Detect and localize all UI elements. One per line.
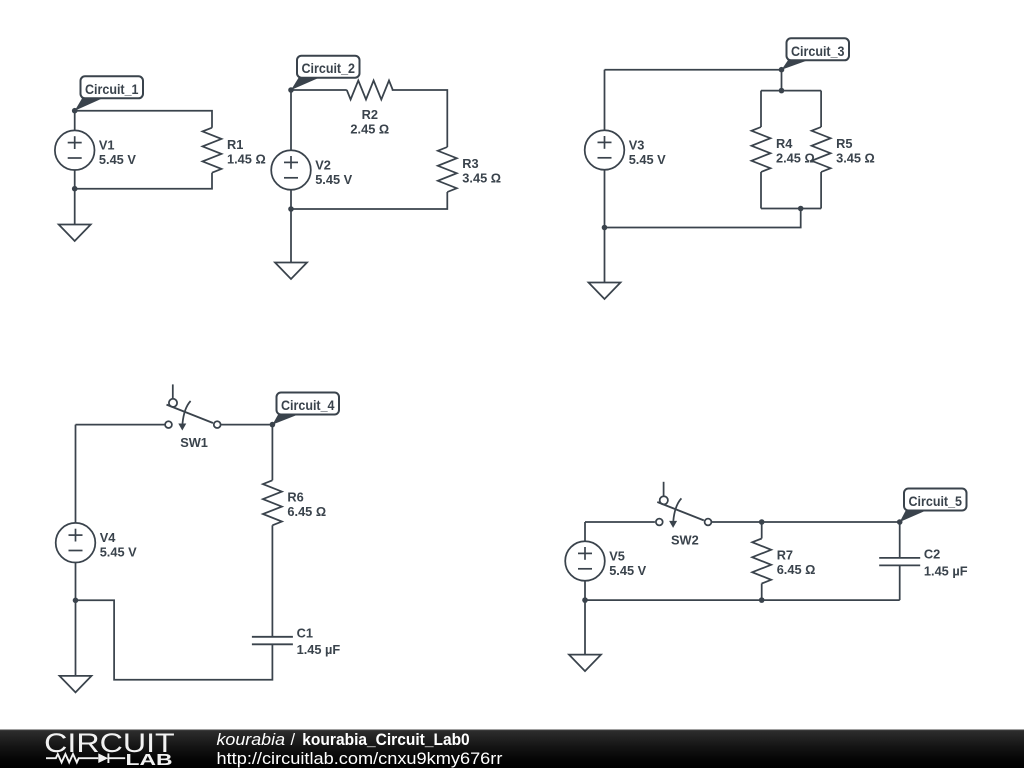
wire R2 to R3 — [392, 90, 448, 147]
wire SW1 to node D — [221, 424, 273, 426]
wire C1 bottom return — [76, 600, 273, 679]
resistor R7 (6.45 &#937;) — [752, 539, 815, 584]
node B (Circuit_2 net) — [288, 87, 294, 93]
svg-text:6.45 Ω: 6.45 Ω — [777, 562, 816, 577]
wire lead R4 top — [760, 91, 762, 127]
svg-text:R5: R5 — [836, 136, 852, 151]
voltage source V2 (5.45 V) — [271, 150, 352, 190]
resistor R6 (6.45 &#937;) — [263, 480, 326, 525]
ground (Circuit_3) — [589, 283, 621, 300]
wire node E to C2 — [899, 522, 901, 558]
node D (Circuit_4 net) — [270, 422, 276, 428]
svg-text:5.45 V: 5.45 V — [315, 172, 352, 187]
wire V3 bottom lead — [604, 170, 606, 228]
wire junction to ground — [604, 228, 606, 283]
svg-text:2.45 Ω: 2.45 Ω — [350, 122, 389, 137]
junction bottom of R4/R5 — [798, 206, 804, 212]
wire SW2 to node R7 top — [711, 521, 761, 523]
svg-text:1.45 µF: 1.45 µF — [297, 642, 341, 657]
wire top (node A to R1) — [75, 111, 212, 128]
wire junction to ground — [584, 600, 586, 655]
ground (Circuit_4) — [60, 676, 92, 693]
wire V4 top lead — [75, 425, 77, 523]
svg-text:V3: V3 — [629, 137, 645, 152]
svg-text:V5: V5 — [609, 548, 625, 563]
svg-text:6.45 Ω: 6.45 Ω — [287, 504, 326, 519]
node label Circuit_4 — [272, 393, 339, 425]
svg-text:1.45 Ω: 1.45 Ω — [227, 151, 266, 166]
wire node B to V2 top — [290, 90, 292, 150]
node E (Circuit_5 net) — [897, 519, 903, 525]
node label Circuit_5 — [900, 489, 967, 523]
svg-text:R3: R3 — [462, 156, 478, 171]
svg-text:LAB: LAB — [126, 752, 173, 768]
wire V3 top lead — [604, 70, 606, 131]
wire V5 top to SW2 — [585, 521, 655, 523]
svg-text:2.45 Ω: 2.45 Ω — [776, 151, 815, 166]
junction V3- / return / ground — [602, 225, 608, 231]
wire C2 bottom lead — [899, 565, 901, 600]
wire bottom bus — [585, 599, 900, 601]
svg-text:Circuit_3: Circuit_3 — [791, 43, 845, 59]
svg-text:Circuit_5: Circuit_5 — [909, 493, 963, 509]
svg-text:kourabia_Circuit_Lab0: kourabia_Circuit_Lab0 — [302, 731, 469, 749]
wire lead R5 bottom — [820, 172, 822, 209]
wire V5 bottom lead — [584, 581, 586, 600]
svg-text:V1: V1 — [99, 138, 115, 153]
capacitor C2 (1.45 &#181;F) — [879, 547, 968, 579]
junction V4- / return / ground — [73, 598, 79, 604]
svg-text:5.45 V: 5.45 V — [100, 545, 137, 560]
wire bottom return to V3 — [605, 209, 801, 228]
svg-text:R6: R6 — [287, 490, 303, 505]
svg-text:http://circuitlab.com/cnxu9kmy: http://circuitlab.com/cnxu9kmy676rr — [217, 750, 503, 768]
svg-text:R4: R4 — [776, 136, 793, 151]
wire bottom bar R4-R5 — [761, 208, 821, 210]
wire R3 bottom to V2 bottom — [291, 192, 447, 209]
node label Circuit_2 — [291, 56, 360, 90]
node C (Circuit_3 net) — [779, 67, 785, 73]
svg-text:V4: V4 — [100, 530, 117, 545]
wire node C down to parallel pair — [781, 70, 783, 91]
wire V5 top lead — [584, 522, 586, 541]
wire R6 to C1 — [271, 525, 273, 637]
junction top of R4/R5 — [779, 88, 785, 94]
node label Circuit_3 — [782, 38, 850, 69]
capacitor C1 (1.45 &#181;F) — [252, 626, 341, 658]
node A (Circuit_1 net) — [72, 108, 78, 114]
wire junction to ground — [290, 209, 292, 263]
voltage source V3 (5.45 V) — [585, 130, 666, 170]
svg-text:SW2: SW2 — [671, 532, 699, 547]
svg-text:V2: V2 — [315, 157, 331, 172]
wire junction to ground — [74, 189, 76, 225]
svg-text:5.45 V: 5.45 V — [629, 152, 666, 167]
resistor R2 (2.45 &#937;) — [347, 81, 393, 137]
wire top bar R4-R5 — [761, 90, 821, 92]
svg-text:5.45 V: 5.45 V — [609, 563, 646, 578]
wire V2 bottom to junction — [290, 190, 292, 209]
wire R1 bottom to V1 bottom — [75, 173, 212, 189]
footer bar — [0, 730, 1024, 768]
CircuitLab logo resistor-diode glyph — [46, 753, 125, 763]
wire node A to V1 top — [74, 111, 76, 131]
wire V4 top to SW1 — [76, 424, 166, 426]
switch SW2 — [656, 482, 712, 548]
switch SW1 — [165, 384, 221, 450]
wire V1 bottom to junction — [74, 170, 76, 189]
voltage source V5 (5.45 V) — [565, 541, 646, 581]
resistor R4 (2.45 &#937;) — [752, 127, 815, 172]
svg-text:1.45 µF: 1.45 µF — [924, 563, 968, 578]
ground (Circuit_5) — [569, 655, 601, 672]
ground (Circuit_2) — [275, 263, 307, 280]
wire V4 bottom lead — [75, 563, 77, 601]
svg-text:Circuit_2: Circuit_2 — [302, 60, 356, 76]
voltage source V1 (5.45 V) — [55, 130, 136, 170]
svg-text:C1: C1 — [297, 626, 313, 641]
resistor R5 (3.45 &#937;) — [812, 127, 875, 172]
svg-text:Circuit_4: Circuit_4 — [281, 397, 335, 413]
svg-text:kourabia: kourabia — [217, 731, 286, 749]
resistor R3 (3.45 &#937;) — [438, 147, 501, 192]
svg-text:5.45 V: 5.45 V — [99, 152, 136, 167]
junction R7 top — [759, 519, 765, 525]
wire junction to ground — [75, 600, 77, 676]
svg-text:3.45 Ω: 3.45 Ω — [462, 171, 501, 186]
junction V2- / R3 / ground — [288, 206, 294, 212]
svg-text:R1: R1 — [227, 137, 243, 152]
node label Circuit_1 — [75, 76, 143, 110]
junction V5- / bus / ground — [582, 597, 588, 603]
ground (Circuit_1) — [59, 225, 91, 242]
wire V3 top to node C — [605, 69, 782, 71]
wire R7 top to node E — [762, 521, 900, 523]
svg-text:/: / — [291, 731, 296, 749]
svg-text:Circuit_1: Circuit_1 — [85, 81, 139, 97]
wire R7 top lead — [761, 522, 763, 539]
svg-text:R2: R2 — [362, 107, 378, 122]
voltage source V4 (5.45 V) — [56, 523, 137, 563]
wire lead R4 bottom — [760, 172, 762, 209]
wire lead R5 top — [820, 91, 822, 127]
wire R7 bottom lead — [761, 584, 763, 601]
wire node D to R6 — [271, 425, 273, 481]
junction V1- / R1 / ground — [72, 186, 78, 192]
svg-text:3.45 Ω: 3.45 Ω — [836, 151, 875, 166]
svg-text:R7: R7 — [777, 548, 793, 563]
svg-text:SW1: SW1 — [180, 435, 208, 450]
resistor R1 (1.45 &#937;) — [203, 128, 266, 173]
svg-text:C2: C2 — [924, 547, 940, 562]
wire node B to R2 — [291, 89, 347, 91]
junction R7 bottom — [759, 597, 765, 603]
